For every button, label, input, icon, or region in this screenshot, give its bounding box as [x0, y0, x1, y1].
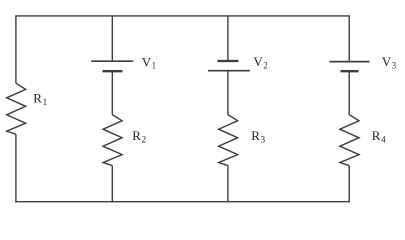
- svg-text:V: V: [253, 54, 263, 69]
- wire branch2 lower: [111, 166, 113, 203]
- wire top rail: [15, 15, 350, 17]
- wire right branch lower: [348, 166, 350, 203]
- label R1: [33, 91, 47, 107]
- svg-text:3: 3: [261, 134, 266, 144]
- battery V2: [208, 61, 250, 71]
- svg-text:1: 1: [43, 97, 48, 107]
- resistor R3: [219, 115, 238, 166]
- svg-text:V: V: [142, 54, 152, 69]
- wire branch2 upper: [111, 16, 113, 61]
- svg-text:R: R: [132, 128, 141, 143]
- svg-text:4: 4: [381, 134, 386, 144]
- wire branch3 lower: [227, 166, 229, 203]
- svg-text:R: R: [33, 91, 42, 106]
- wire V3 to R4: [348, 71, 350, 114]
- battery V1: [91, 61, 133, 71]
- wire V2 to R3: [227, 71, 229, 115]
- svg-text:R: R: [251, 128, 260, 143]
- svg-text:2: 2: [142, 134, 147, 144]
- svg-text:V: V: [382, 54, 392, 69]
- wire right branch upper: [348, 16, 350, 62]
- svg-text:1: 1: [152, 61, 157, 71]
- label V3: [382, 54, 397, 70]
- resistor R2: [103, 115, 122, 166]
- svg-text:3: 3: [392, 60, 397, 70]
- svg-text:R: R: [372, 128, 381, 143]
- resistor R1: [7, 83, 26, 134]
- resistor R4: [340, 115, 359, 166]
- wire bottom rail: [15, 201, 350, 203]
- label R2: [132, 128, 146, 144]
- wire left branch upper: [15, 16, 17, 83]
- battery V3: [330, 62, 370, 72]
- label R3: [251, 128, 265, 144]
- wire V1 to R2: [111, 71, 113, 114]
- wire branch3 upper: [227, 16, 229, 61]
- label V2: [253, 54, 267, 70]
- wire left branch lower: [15, 134, 17, 202]
- label R4: [372, 128, 386, 144]
- label V1: [142, 54, 156, 70]
- svg-text:2: 2: [263, 60, 268, 70]
